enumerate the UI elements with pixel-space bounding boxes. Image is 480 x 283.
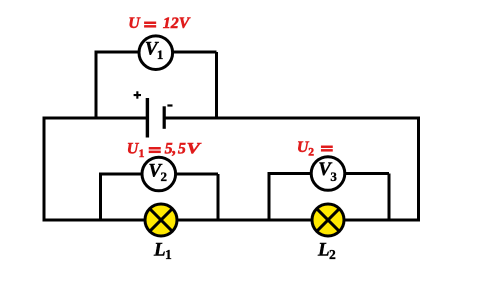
- lamp L2: [312, 204, 344, 236]
- voltmeter V1: [139, 36, 173, 70]
- svg-text:V: V: [187, 140, 202, 157]
- svg-text:1: 1: [165, 247, 172, 262]
- wire: outer right vertical: [417, 117, 420, 221]
- voltmeter V2: [142, 157, 176, 191]
- voltmeter V3: [311, 157, 345, 191]
- wire: V1 branch left horizontal: [95, 51, 141, 54]
- svg-text:5: 5: [165, 140, 173, 157]
- svg-text:L: L: [153, 240, 166, 261]
- svg-text:2: 2: [329, 247, 336, 262]
- svg-text:3: 3: [330, 169, 337, 184]
- wire: top wire right segment (from battery -): [164, 117, 420, 120]
- wire: V2 branch left horizontal: [99, 173, 143, 176]
- wire: V1 branch right horizontal: [172, 51, 217, 54]
- svg-text:2: 2: [160, 169, 167, 184]
- wire: V2 branch right vertical: [217, 174, 220, 220]
- battery cell B1: positive plate (long): [146, 98, 149, 138]
- battery cell B1: negative plate (short): [163, 106, 166, 129]
- label: U2 = (red): [297, 139, 333, 159]
- wire: V3 branch left horizontal: [268, 172, 313, 175]
- wire: V3 branch right vertical: [388, 174, 391, 221]
- svg-text:5: 5: [178, 140, 186, 157]
- wire: V3 branch right horizontal: [344, 172, 389, 175]
- svg-text:2: 2: [308, 146, 314, 158]
- wire: V1 branch right vertical: [215, 52, 218, 118]
- svg-text:1: 1: [139, 148, 145, 160]
- wire: V1 branch left vertical: [95, 52, 98, 118]
- label: battery minus sign: [167, 104, 172, 106]
- wire: top wire left segment (to battery +): [43, 117, 147, 120]
- label: battery plus sign: [134, 91, 141, 98]
- svg-text:12V: 12V: [163, 15, 191, 32]
- svg-text:1: 1: [157, 47, 164, 62]
- lamp L1: [145, 204, 177, 236]
- wire: V2 branch right horizontal: [175, 173, 218, 176]
- wire: V2 branch left vertical: [99, 174, 102, 220]
- svg-text:L: L: [317, 240, 330, 261]
- svg-text:,: ,: [171, 140, 176, 157]
- label: U = 12V (red): [128, 15, 191, 32]
- wire: outer left vertical: [43, 117, 46, 221]
- wire: V3 branch left vertical: [268, 174, 271, 221]
- wire: bottom wire: [43, 219, 421, 222]
- label: U1 = 5,5V (red): [127, 140, 202, 160]
- svg-text:U: U: [128, 15, 141, 32]
